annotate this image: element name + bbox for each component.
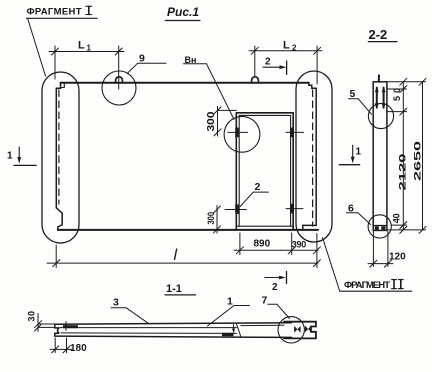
bottom edge: [58, 229, 318, 231]
label Фрагмент I: [26, 6, 97, 18]
svg-text:30: 30: [27, 311, 37, 322]
svg-text:1: 1: [227, 296, 233, 308]
svg-text:890: 890: [254, 239, 271, 250]
dimension 120 bottom of 2-2: [368, 232, 393, 268]
section marker 1 left: [7, 147, 36, 165]
label 5: [349, 88, 372, 114]
dimension lines 2-2 right side: [387, 78, 426, 233]
slab right end channel item 7: [284, 322, 316, 339]
label 6: [346, 203, 370, 225]
embedded plate mark left (1-1): [63, 322, 78, 331]
dimension L2: [249, 46, 322, 84]
lifting pin top of 2-2: [378, 75, 380, 82]
label 2 (anchor item): [240, 181, 268, 207]
dimension 30: [35, 314, 54, 332]
dimension 300 bottom: [214, 206, 221, 234]
svg-text:120: 120: [389, 252, 406, 263]
layer cut diagonal (1-1): [237, 324, 241, 336]
svg-text:L: L: [78, 40, 85, 52]
hidden dashed line left: [58, 90, 60, 204]
dimension 300 top: [214, 107, 236, 137]
anchor mark lower-right of opening: [286, 204, 303, 214]
lifting loop right: [252, 77, 259, 83]
top-left corner notch square: [61, 83, 64, 88]
callout circle 5: [368, 103, 393, 128]
label 9: [127, 53, 166, 74]
svg-text:2120: 2120: [398, 154, 408, 191]
svg-text:ФРАГМЕНТ: ФРАГМЕНТ: [27, 7, 82, 18]
svg-text:390: 390: [292, 239, 307, 249]
anchor mark lower-left of opening: [225, 204, 246, 214]
dimension L1: [49, 46, 124, 89]
panel outline main view: [56, 83, 318, 230]
right edge: [315, 88, 317, 225]
leader фрагмент I: [28, 19, 46, 76]
svg-text:1-1: 1-1: [166, 283, 182, 295]
svg-text:2: 2: [265, 57, 271, 68]
svg-text:1: 1: [7, 151, 13, 162]
label L1: [78, 40, 92, 53]
section marker 2 bottom: [265, 272, 287, 294]
svg-text:7: 7: [262, 295, 268, 307]
label Вн: [184, 55, 235, 119]
bottom-right corner rebate: [303, 225, 316, 230]
opening (doorway) in panel: [236, 113, 293, 230]
dimensions 890 and 390: [234, 233, 320, 268]
callout circle 7: [278, 317, 304, 343]
label L2: [283, 40, 297, 53]
svg-text:2: 2: [255, 181, 261, 193]
leader фрагмент II: [323, 238, 340, 292]
label 1: [208, 296, 250, 327]
svg-text:2: 2: [272, 282, 278, 293]
svg-text:ФРАГМЕНТ: ФРАГМЕНТ: [344, 280, 390, 291]
svg-text:9: 9: [139, 53, 145, 65]
svg-text:1: 1: [87, 44, 92, 53]
fragment II callout capsule: [296, 71, 332, 242]
title 1-1: [165, 283, 196, 295]
callout circle at upper-left mark: [224, 116, 260, 152]
hidden dashed line right: [312, 90, 314, 226]
bottom channel detail item 6: [373, 226, 387, 230]
top edge: [61, 82, 309, 84]
svg-text:40: 40: [392, 213, 402, 223]
section marker 1 right: [339, 145, 361, 165]
bottom-left corner step: [56, 208, 62, 230]
section 2-2 body: [373, 82, 387, 231]
opening sill line: [236, 225, 293, 227]
label Фрагмент II: [340, 280, 412, 292]
section 1-1 slab band: [55, 323, 292, 338]
lifting loop left: [116, 77, 123, 83]
svg-text:2: 2: [292, 44, 297, 53]
slab left end groove profile: [55, 324, 59, 336]
anchor mark upper-right of opening: [286, 128, 304, 138]
fragment I callout capsule: [42, 72, 79, 243]
label 7: [262, 295, 290, 319]
title Рис.1: [165, 5, 200, 21]
dimension 180: [50, 338, 72, 353]
svg-text:L: L: [283, 40, 290, 52]
top-left corner step: [56, 83, 60, 88]
section marker 2 top: [263, 57, 287, 75]
svg-text:50: 50: [392, 88, 402, 101]
top-right corner step: [309, 83, 316, 89]
svg-text:180: 180: [70, 343, 87, 354]
svg-text:300: 300: [206, 212, 217, 225]
dimension L overall: [47, 245, 320, 268]
svg-text:2-2: 2-2: [369, 27, 388, 42]
weld marks inside channel: [294, 326, 311, 333]
svg-text:2650: 2650: [413, 141, 423, 181]
svg-text:1: 1: [356, 147, 362, 158]
svg-text:3: 3: [113, 297, 119, 309]
title 2-2: [368, 27, 397, 42]
detail circle 9: [102, 71, 136, 105]
embedded mark middle (1-1) with arrow: [222, 325, 235, 337]
callout circle 6: [368, 215, 391, 238]
label 3: [111, 297, 149, 324]
svg-text:Рис.1: Рис.1: [167, 5, 199, 19]
anchor mark upper-left of opening: [228, 128, 248, 138]
reinforcing bars item 5: [377, 88, 384, 108]
left edge: [55, 88, 57, 208]
svg-text:l: l: [174, 247, 178, 264]
svg-text:300: 300: [206, 111, 217, 132]
